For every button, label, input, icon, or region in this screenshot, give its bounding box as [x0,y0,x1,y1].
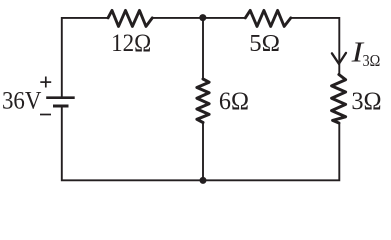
wire right-bottom segment [203,123,339,180]
svg-text:6Ω: 6Ω [219,88,249,115]
svg-text:3Ω: 3Ω [351,88,381,115]
value label 5ohm [249,30,280,57]
value label 12ohm [111,30,151,57]
wire middle-top segment [202,18,204,79]
junction node bottom (dot) [200,177,207,184]
svg-text:3Ω: 3Ω [363,51,381,70]
wire top-middle segment [152,17,245,19]
value label 6ohm [219,88,249,115]
resistor R 12ohm [108,10,152,26]
svg-text:36V: 36V [2,87,41,114]
battery V1 36V long plate (+) [46,96,74,99]
resistor R 6ohm (vertical) [197,79,209,123]
source value label 36V [2,87,41,114]
junction node top (dot) [199,14,206,21]
plus sign [40,77,51,88]
value label 3ohm [351,88,381,115]
minus sign [40,114,51,116]
svg-text:5Ω: 5Ω [249,30,280,57]
resistor R 3ohm (vertical) [332,75,346,124]
wire middle-bottom segment [202,123,204,181]
battery V1 36V short plate (-) [53,105,69,108]
svg-text:12Ω: 12Ω [111,30,151,57]
wire top-left segment [62,18,108,97]
current arrow I3 (arrowhead on right wire) [332,53,346,64]
wire top-right segment [291,18,340,75]
resistor R 5ohm [245,10,290,26]
current label I_3ohm [351,38,381,70]
wire bottom-left segment [62,107,203,180]
